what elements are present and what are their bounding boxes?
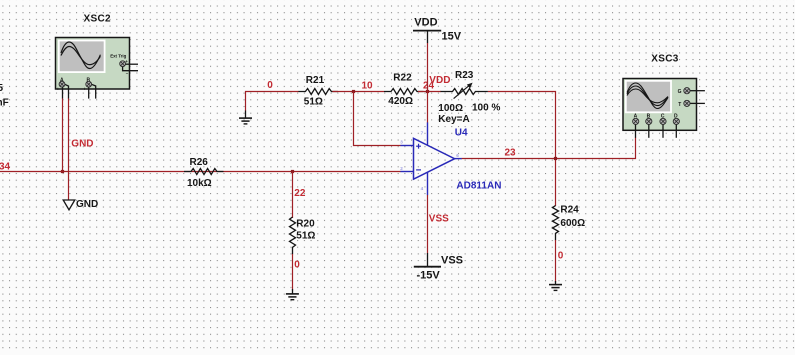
XSC3 terminal A [633, 114, 639, 138]
svg-text:51Ω: 51Ω [304, 97, 323, 108]
wire R20 to ground [292, 254, 294, 291]
node 10 label [362, 81, 374, 92]
svg-text:10kΩ: 10kΩ [187, 178, 212, 189]
op-amp part AD811AN [456, 181, 501, 192]
svg-text:R22: R22 [393, 73, 412, 84]
svg-text:GND: GND [71, 139, 93, 150]
oscilloscope XSC3 body [623, 79, 697, 131]
svg-text:10: 10 [362, 81, 374, 92]
svg-text:VDD: VDD [414, 17, 437, 29]
node 0 label (under R20) [294, 260, 300, 271]
resistor R22 [384, 73, 424, 107]
oscilloscope XSC2 label [84, 14, 111, 25]
resistor R24 [553, 205, 586, 241]
junction node 24 [426, 90, 429, 93]
oscilloscope XSC3 label [651, 54, 678, 65]
wire XSC2 A- down to GND [68, 98, 70, 199]
svg-text:Ext Trig: Ext Trig [110, 53, 126, 58]
wire VDD down to op-amp supply [427, 43, 429, 123]
svg-text:−: − [97, 86, 100, 91]
svg-text:U4: U4 [455, 128, 468, 139]
wire R22 to node 24 [418, 91, 441, 93]
node 22 label [294, 188, 306, 199]
junction node 10 [352, 90, 355, 93]
svg-text:GND: GND [76, 199, 98, 210]
svg-text:nF: nF [0, 97, 9, 108]
net label GND (red) [71, 139, 93, 150]
svg-text:5: 5 [0, 83, 4, 94]
svg-text:VSS: VSS [441, 255, 463, 267]
node 23 label [505, 148, 517, 159]
svg-text:+: + [125, 59, 128, 64]
XSC3 terminal T [678, 100, 705, 108]
XSC2 terminal A [57, 77, 73, 98]
svg-text:51Ω: 51Ω [296, 231, 315, 242]
op-amp pin number 4 (V-) [421, 186, 424, 191]
svg-text:34: 34 [0, 161, 11, 172]
svg-text:G: G [678, 89, 682, 95]
svg-text:AD811AN: AD811AN [456, 181, 501, 192]
svg-text:600Ω: 600Ω [560, 218, 585, 229]
svg-text:Key=A: Key=A [438, 114, 469, 125]
wire op-amp output node 23 [462, 138, 636, 159]
ground (below R24) [549, 281, 562, 290]
junction node 34 / A+ [61, 170, 64, 173]
op-amp pin number 6 (output) [456, 153, 459, 158]
resistor R21 [298, 75, 338, 108]
XSC3 terminal B [646, 114, 652, 138]
svg-text:23: 23 [505, 148, 517, 159]
XSC3 terminal D [673, 114, 679, 138]
svg-text:0: 0 [558, 250, 564, 261]
svg-text:420Ω: 420Ω [388, 96, 413, 107]
XSC3 terminal G [678, 88, 705, 95]
ground (left of R21) [239, 111, 252, 124]
svg-text:100 %: 100 % [472, 103, 500, 114]
power VSS symbol [414, 253, 463, 281]
op-amp pin number 2 (minus input) [400, 166, 403, 171]
junction node 23 / R24 branch [554, 157, 557, 160]
ground (below R20) [286, 289, 299, 300]
ground GND triangle symbol [63, 199, 98, 210]
wire node 10 down to op-amp plus input [354, 92, 401, 146]
svg-text:6: 6 [456, 153, 459, 158]
svg-text:R24: R24 [560, 205, 579, 216]
svg-text:XSC2: XSC2 [84, 14, 111, 25]
node 34 label [0, 161, 11, 172]
svg-text:0: 0 [267, 80, 273, 91]
node 0 label (under R24) [558, 250, 564, 261]
svg-text:R23: R23 [455, 70, 474, 81]
wire R24 to ground [555, 240, 557, 283]
svg-text:R21: R21 [306, 75, 325, 86]
svg-text:XSC3: XSC3 [651, 54, 678, 65]
node 0 label (left of R21) [267, 80, 273, 91]
op-amp reference U4 [455, 128, 468, 139]
resistor R26 [184, 157, 224, 189]
svg-text:R26: R26 [190, 157, 209, 168]
partial capacitor label nF (clipped at left edge) [0, 83, 9, 108]
wire node 22 down to R20 [292, 172, 294, 219]
svg-text:VDD: VDD [429, 75, 450, 86]
svg-text:R20: R20 [296, 219, 315, 230]
svg-text:0: 0 [294, 260, 300, 271]
net label VDD (red, on wire) [429, 75, 450, 86]
svg-text:−: − [126, 71, 129, 76]
svg-text:2: 2 [400, 166, 403, 171]
op-amp U4 AD811AN [400, 122, 462, 195]
svg-text:3: 3 [400, 140, 403, 145]
resistor R20 [290, 217, 316, 254]
svg-text:VSS: VSS [429, 214, 449, 225]
svg-text:+: + [83, 86, 86, 91]
svg-text:22: 22 [294, 188, 306, 199]
svg-text:4: 4 [421, 186, 424, 191]
XSC2 ext-trig terminal [120, 59, 138, 76]
svg-text:-15V: -15V [417, 269, 441, 281]
node 24 label [423, 81, 435, 92]
potentiometer R23 [438, 70, 500, 125]
svg-text:100Ω: 100Ω [438, 103, 463, 114]
svg-text:−: − [70, 86, 73, 91]
svg-text:+: + [57, 86, 60, 91]
junction node 22 [291, 170, 294, 173]
wire R21 to node 10 [332, 91, 384, 93]
wire R23 to R24 branch corner [488, 92, 556, 207]
power VDD symbol [413, 17, 462, 44]
op-amp pin number 3 (plus input) [400, 140, 403, 145]
XSC3 terminal C [660, 114, 666, 138]
wire node 0 stub from ground up to top row [246, 92, 299, 111]
op-amp pin number 7 (V+) [421, 131, 424, 136]
svg-text:7: 7 [421, 131, 424, 136]
oscilloscope XSC2 body [56, 38, 130, 90]
svg-text:T: T [678, 102, 681, 108]
svg-text:15V: 15V [442, 31, 462, 43]
wire op-amp V- down to VSS [427, 195, 429, 253]
XSC2 terminal B [83, 77, 100, 98]
net label VSS (red, on wire) [429, 214, 449, 225]
wire XSC2 A+ down to node 34 [62, 98, 64, 171]
wire node 34 horizontal to op-amp minus input [0, 171, 401, 173]
